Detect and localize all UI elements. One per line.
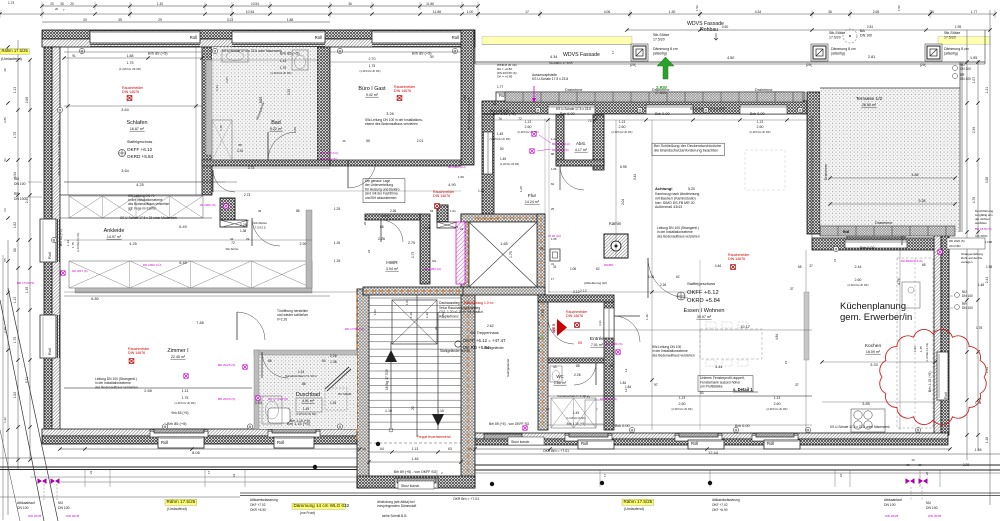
svg-text:BD 17/30 (S): BD 17/30 (S) (17, 281, 34, 285)
svg-text:FTS: FTS (382, 214, 390, 219)
svg-text:26.90 m²: 26.90 m² (862, 103, 877, 107)
svg-text:M: M (164, 425, 167, 429)
svg-text:1.10: 1.10 (437, 409, 444, 413)
svg-text:72: 72 (588, 119, 592, 123)
svg-text:DU 90x90: DU 90x90 (338, 392, 352, 396)
svg-text:(Umlaufend): (Umlaufend) (624, 507, 644, 511)
svg-text:(1.415 bis UK RK): (1.415 bis UK RK) (360, 69, 381, 73)
svg-text:DD 2260 (H): DD 2260 (H) (424, 267, 441, 271)
svg-text:16.09 m²: 16.09 m² (866, 350, 881, 354)
svg-text:Treppe feuerhemmend: Treppe feuerhemmend (417, 435, 451, 439)
svg-text:36: 36 (348, 2, 352, 6)
svg-text:17.5/20: 17.5/20 (655, 91, 666, 95)
svg-text:1.25: 1.25 (334, 207, 341, 211)
svg-text:20: 20 (3, 68, 7, 72)
svg-text:OKF +7.02: OKF +7.02 (712, 503, 728, 507)
svg-text:des Bodenaufbaus verziehen: des Bodenaufbaus verziehen (95, 385, 138, 389)
svg-text:NÜ: NÜ (14, 177, 19, 181)
svg-text:50: 50 (500, 147, 504, 151)
svg-text:Entrée: Entrée (590, 336, 604, 342)
svg-text:3.64: 3.64 (121, 169, 128, 173)
svg-text:1.06: 1.06 (648, 275, 654, 279)
svg-text:22.45 m²: 22.45 m² (171, 355, 186, 359)
svg-text:20: 20 (918, 463, 922, 467)
svg-text:25: 25 (540, 247, 544, 251)
svg-text:24: 24 (367, 249, 371, 253)
svg-text:1.75: 1.75 (369, 64, 376, 68)
svg-text:20: 20 (55, 7, 59, 11)
svg-text:1.78: 1.78 (976, 326, 982, 330)
svg-text:(20(: (20( (806, 63, 813, 67)
svg-text:01: 01 (537, 348, 541, 352)
svg-text:3.26: 3.26 (386, 112, 393, 116)
svg-text:Abst.: Abst. (576, 141, 586, 146)
svg-text:Brh 85 (+5): Brh 85 (+5) (412, 51, 432, 56)
svg-text:Staffelgeschoss: Staffelgeschoss (687, 281, 715, 286)
svg-text:1.06: 1.06 (551, 167, 557, 171)
svg-text:1.07: 1.07 (972, 77, 976, 84)
svg-text:M: M (835, 247, 838, 251)
svg-text:22: 22 (232, 473, 236, 477)
svg-text:DD 2000 (S): DD 2000 (S) (552, 148, 569, 152)
svg-text:4.06: 4.06 (604, 10, 611, 14)
svg-text:Kamin: Kamin (609, 221, 622, 226)
svg-text:2.60: 2.60 (619, 125, 626, 129)
svg-text:BD 2000 (LÜ): BD 2000 (LÜ) (320, 151, 338, 155)
svg-text:DD/BD: DD/BD (604, 263, 614, 267)
svg-text:(allseitig): (allseitig) (944, 52, 958, 56)
svg-text:4.34: 4.34 (550, 55, 557, 59)
svg-text:4.25: 4.25 (136, 183, 143, 187)
svg-text:DD 2000 (LÜ): DD 2000 (LÜ) (143, 263, 162, 267)
svg-text:83: 83 (700, 391, 704, 395)
svg-text:2.44: 2.44 (855, 265, 862, 269)
svg-text:Brh 89 (+5) - von OKFF SG: Brh 89 (+5) - von OKFF SG (394, 470, 437, 474)
svg-text:88: 88 (551, 152, 555, 156)
svg-text:WE 5: WE 5 (552, 324, 556, 333)
svg-text:M: M (735, 428, 738, 432)
svg-text:20: 20 (906, 463, 910, 467)
svg-text:16.87 m²: 16.87 m² (130, 127, 145, 131)
svg-text:1.21: 1.21 (985, 87, 989, 94)
svg-text:6.80: 6.80 (91, 297, 98, 301)
svg-text:Attikaentwässerung: Attikaentwässerung (712, 498, 740, 502)
svg-text:1.52: 1.52 (897, 5, 901, 11)
svg-text:2.26: 2.26 (240, 223, 247, 227)
svg-text:Brh 1.15 (+5): Brh 1.15 (+5) (490, 109, 509, 113)
svg-text:RD 2020 (S): RD 2020 (S) (949, 239, 965, 243)
svg-text:7.88: 7.88 (196, 321, 203, 325)
svg-text:1.45: 1.45 (573, 411, 579, 415)
svg-text:siehe Schnitt B-B: siehe Schnitt B-B (382, 514, 406, 518)
svg-text:Zimmer I: Zimmer I (167, 348, 188, 354)
svg-text:4.46: 4.46 (715, 264, 722, 268)
svg-text:2.60: 2.60 (757, 125, 764, 129)
svg-text:37: 37 (790, 287, 794, 291)
svg-text:80 2000 (LÜ): 80 2000 (LÜ) (448, 165, 466, 169)
svg-text:Dachausstieg +: Dachausstieg + (439, 301, 462, 305)
svg-text:1.24: 1.24 (298, 370, 304, 374)
svg-text:1.13: 1.13 (757, 120, 763, 124)
svg-text:Brh 85 (+5): Brh 85 (+5) (148, 51, 168, 56)
svg-text:26: 26 (363, 221, 367, 225)
svg-text:2.26: 2.26 (237, 149, 243, 153)
svg-text:(1.415 bis UK RK): (1.415 bis UK RK) (271, 71, 292, 75)
svg-text:2.60: 2.60 (774, 402, 781, 406)
svg-text:1.69: 1.69 (458, 175, 464, 179)
svg-text:1.65: 1.65 (500, 242, 507, 246)
svg-text:s. Detail 1: s. Detail 1 (733, 387, 753, 392)
svg-text:20: 20 (70, 2, 74, 6)
svg-text:OKR +6.90: OKR +6.90 (250, 508, 266, 512)
svg-text:BA: BA (860, 29, 865, 33)
svg-text:(1.115 bis UK RK): (1.115 bis UK RK) (296, 412, 317, 416)
svg-text:1.01: 1.01 (450, 209, 456, 213)
svg-text:1.48: 1.48 (975, 448, 982, 452)
svg-text:17: 17 (551, 277, 555, 281)
svg-text:M: M (249, 425, 252, 429)
svg-text:Brh 85 (+5): Brh 85 (+5) (167, 421, 187, 426)
svg-text:hier: SIMO DS-FB MR 20: hier: SIMO DS-FB MR 20 (655, 201, 695, 205)
svg-text:KS U-Schale 17.5 x 23.8 unter: KS U-Schale 17.5 x 23.8 unter Mauerwerk (222, 49, 282, 53)
svg-text:M: M (339, 49, 342, 53)
svg-text:36: 36 (258, 209, 262, 213)
svg-text:DN 100: DN 100 (884, 503, 896, 507)
svg-text:63: 63 (448, 447, 452, 451)
svg-text:(1.115 bis UK RK): (1.115 bis UK RK) (926, 343, 929, 362)
svg-text:Stb-Stütze: Stb-Stütze (225, 247, 239, 251)
svg-text:2.68: 2.68 (144, 389, 151, 393)
svg-text:10.17: 10.17 (740, 324, 751, 329)
svg-text:M: M (214, 49, 217, 53)
svg-text:Brh 85 (+5): Brh 85 (+5) (171, 411, 188, 415)
svg-text:M: M (639, 108, 642, 112)
svg-text:(nur Front): (nur Front) (300, 511, 315, 515)
svg-text:17.5/72.5: 17.5/72.5 (253, 226, 266, 230)
svg-text:DN 100: DN 100 (58, 506, 70, 510)
svg-text:31: 31 (553, 265, 557, 269)
svg-text:KS U-Schale 17.5 x 23.8: KS U-Schale 17.5 x 23.8 (467, 97, 471, 130)
svg-text:Brh 85 (+5): Brh 85 (+5) (280, 51, 300, 56)
svg-text:4.84: 4.84 (775, 334, 779, 340)
svg-text:(2.315 bis UK RK): (2.315 bis UK RK) (750, 130, 771, 134)
svg-text:1.75: 1.75 (182, 396, 189, 400)
svg-text:Rähm 17.5/25: Rähm 17.5/25 (167, 499, 196, 504)
svg-text:4.50: 4.50 (727, 56, 734, 60)
svg-text:WD 20/25: WD 20/25 (885, 514, 899, 518)
svg-text:1.45: 1.45 (303, 407, 310, 411)
svg-text:Roll: Roll (581, 441, 588, 446)
svg-text:(allseitig): (allseitig) (653, 52, 667, 56)
svg-text:6.49: 6.49 (179, 225, 186, 229)
svg-text:und BH abzustimmen: und BH abzustimmen (365, 196, 397, 200)
svg-text:DN 100: DN 100 (860, 34, 872, 38)
svg-text:Roll: Roll (161, 440, 168, 445)
svg-text:DIN 14676: DIN 14676 (128, 351, 145, 355)
svg-text:(Umlaufend): (Umlaufend) (167, 507, 187, 511)
svg-text:1.40: 1.40 (645, 314, 649, 320)
svg-text:1.75: 1.75 (280, 66, 287, 70)
svg-text:RR: RR (14, 192, 19, 196)
svg-text:91: 91 (72, 54, 76, 58)
svg-text:Brh 0.00: Brh 0.00 (615, 423, 631, 428)
svg-text:2.04: 2.04 (621, 199, 625, 205)
svg-text:Bei Schließung der Deckendurch: Bei Schließung der Deckendurchbrüche (654, 144, 721, 148)
svg-text:2.62: 2.62 (487, 324, 494, 328)
svg-text:4.76: 4.76 (972, 197, 976, 204)
svg-text:OKF +6.90: OKF +6.90 (712, 508, 728, 512)
svg-text:1.75: 1.75 (13, 337, 17, 344)
svg-text:1.22: 1.22 (3, 417, 7, 423)
svg-text:11.86: 11.86 (426, 2, 434, 6)
svg-text:24: 24 (537, 321, 541, 325)
svg-text:3.07: 3.07 (259, 97, 263, 104)
svg-text:17: 17 (611, 50, 615, 54)
svg-text:72: 72 (518, 117, 522, 121)
svg-text:1.48: 1.48 (985, 437, 989, 444)
svg-text:3.64: 3.64 (121, 108, 128, 112)
svg-text:DN 100: DN 100 (962, 294, 973, 298)
svg-text:KS U-Schale 17.5 x 23.8: KS U-Schale 17.5 x 23.8 (556, 107, 591, 111)
svg-text:Brh 0.00: Brh 0.00 (750, 111, 766, 116)
svg-text:Roll: Roll (843, 230, 849, 234)
svg-text:(1.115 bis UK RK): (1.115 bis UK RK) (566, 417, 585, 420)
svg-text:1.13: 1.13 (525, 120, 531, 124)
svg-text:14.24 m²: 14.24 m² (525, 200, 540, 204)
svg-text:M: M (53, 238, 56, 242)
svg-text:5.20: 5.20 (688, 187, 695, 191)
svg-text:3.94 m²: 3.94 m² (386, 267, 399, 271)
svg-text:88: 88 (576, 364, 580, 368)
svg-text:Attikaentwässerung: Attikaentwässerung (250, 498, 278, 502)
svg-text:OKRD +5.84: OKRD +5.84 (127, 154, 154, 159)
svg-text:50: 50 (430, 55, 434, 59)
svg-text:1.73: 1.73 (8, 1, 14, 5)
svg-text:1.45: 1.45 (497, 132, 504, 136)
svg-text:M: M (339, 425, 342, 429)
svg-text:Attikaablauf: Attikaablauf (884, 498, 902, 502)
svg-text:88: 88 (238, 143, 242, 147)
svg-text:Drainrinne: Drainrinne (755, 88, 773, 92)
svg-text:WDVS Fassade: WDVS Fassade (563, 52, 600, 58)
svg-text:D5: D5 (578, 341, 582, 345)
svg-text:Brh 1.15 (+5): Brh 1.15 (+5) (928, 371, 932, 392)
svg-text:DD-BD40/113 (S): DD-BD40/113 (S) (901, 259, 923, 263)
svg-text:2.70: 2.70 (369, 57, 376, 61)
svg-text:BD 2000 (S): BD 2000 (S) (606, 342, 623, 346)
svg-text:gem. Erwerber/in: gem. Erwerber/in (840, 312, 912, 323)
svg-text:36: 36 (828, 10, 832, 14)
svg-text:2.60: 2.60 (525, 125, 532, 129)
svg-text:4.91 m²: 4.91 m² (302, 399, 315, 403)
svg-text:Vorsatzschale h=1.19 m: Vorsatzschale h=1.19 m (285, 374, 318, 378)
svg-text:(1.415 bis UK RK): (1.415 bis UK RK) (175, 401, 196, 405)
svg-text:WD 20/45: WD 20/45 (66, 514, 80, 518)
svg-text:97: 97 (654, 383, 658, 387)
svg-text:OKRD +5.84: OKRD +5.84 (687, 298, 721, 304)
svg-text:DN 100: DN 100 (14, 197, 26, 201)
svg-text:6.49: 6.49 (179, 261, 186, 265)
svg-text:9.42 m²: 9.42 m² (366, 93, 379, 97)
svg-text:2.40: 2.40 (25, 197, 29, 204)
svg-text:1.13: 1.13 (619, 120, 625, 124)
svg-text:ausfüllen: ausfüllen (975, 221, 987, 225)
svg-text:3.42: 3.42 (633, 174, 637, 180)
svg-text:DD 2000 (S): DD 2000 (S) (320, 157, 337, 161)
svg-text:(Abkofferung GK): (Abkofferung GK) (584, 281, 607, 285)
svg-text:1.30: 1.30 (669, 10, 676, 14)
svg-text:M: M (454, 49, 457, 53)
svg-text:39.97 m²: 39.97 m² (697, 315, 712, 319)
svg-text:Essen I Wohnen: Essen I Wohnen (684, 308, 725, 314)
svg-text:1.13: 1.13 (13, 87, 17, 94)
svg-text:des Bodenaufbaus verziehen: des Bodenaufbaus verziehen (652, 353, 695, 357)
svg-text:Achtung!: Achtung! (655, 186, 673, 191)
svg-text:1.20: 1.20 (425, 312, 429, 318)
svg-text:50: 50 (322, 359, 326, 363)
svg-text:Brandschutzwand: Brandschutzwand (477, 217, 500, 221)
svg-text:20: 20 (50, 2, 54, 6)
svg-text:1.25: 1.25 (330, 401, 336, 405)
svg-text:Stb-Stütze: Stb-Stütze (944, 31, 960, 35)
svg-text:1.93: 1.93 (255, 401, 262, 405)
svg-text:OK = +0.85: OK = +0.85 (497, 75, 513, 79)
svg-text:1.88: 1.88 (127, 54, 134, 58)
svg-text:3.98: 3.98 (985, 177, 989, 184)
svg-text:10: 10 (911, 458, 915, 462)
svg-text:Attikaablauf: Attikaablauf (17, 501, 35, 505)
svg-text:KS U-Schale 17.5 x 23.8: KS U-Schale 17.5 x 23.8 (532, 77, 568, 81)
svg-text:ggf. Fuge im Estrich: ggf. Fuge im Estrich (128, 206, 157, 210)
svg-text:DIN 14676: DIN 14676 (433, 194, 450, 198)
svg-text:DD 17/30 (LÜ): DD 17/30 (LÜ) (345, 327, 364, 331)
svg-text:Duschbad: Duschbad (296, 392, 320, 398)
svg-text:20: 20 (434, 326, 438, 330)
svg-text:1.24: 1.24 (478, 189, 484, 193)
svg-text:M: M (917, 428, 920, 432)
svg-text:M: M (631, 428, 634, 432)
svg-text:NÜ: NÜ (926, 501, 931, 505)
svg-text:1.01: 1.01 (405, 299, 409, 305)
svg-text:Kaminzug nach Abstimmung: Kaminzug nach Abstimmung (655, 192, 699, 196)
svg-text:88: 88 (380, 225, 384, 229)
svg-text:BD 1878 (S): BD 1878 (S) (975, 227, 992, 231)
svg-text:Brh 0.00: Brh 0.00 (655, 111, 671, 116)
svg-text:2.44: 2.44 (985, 277, 989, 284)
svg-text:OKR Brh = +7.01: OKR Brh = +7.01 (543, 449, 569, 453)
svg-text:1.26: 1.26 (334, 241, 341, 245)
svg-text:FTS: FTS (541, 309, 545, 316)
svg-text:Roll: Roll (277, 440, 284, 445)
svg-text:Roll: Roll (944, 392, 948, 399)
svg-text:20: 20 (83, 18, 87, 22)
svg-text:OKR Brh = +7.01: OKR Brh = +7.01 (453, 497, 479, 501)
svg-text:1.53: 1.53 (441, 312, 445, 318)
svg-text:62: 62 (551, 182, 555, 186)
svg-text:76: 76 (498, 117, 502, 121)
svg-text:UK=OKD: UK=OKD (949, 244, 961, 248)
svg-text:20: 20 (362, 447, 366, 451)
svg-text:1.13: 1.13 (679, 396, 685, 400)
svg-text:M: M (59, 108, 62, 112)
svg-text:11.86: 11.86 (433, 10, 441, 14)
svg-text:1.24: 1.24 (551, 137, 557, 141)
svg-text:1.20: 1.20 (519, 186, 523, 192)
svg-text:Außenmaß 43/43: Außenmaß 43/43 (655, 205, 682, 209)
svg-text:4.76: 4.76 (897, 278, 901, 285)
svg-text:24: 24 (468, 447, 472, 451)
svg-text:Drainrinne: Drainrinne (875, 221, 893, 225)
svg-text:(2.315 bis UK RK): (2.315 bis UK RK) (612, 130, 633, 134)
svg-text:64: 64 (380, 447, 384, 451)
svg-text:1.38: 1.38 (330, 360, 337, 364)
svg-text:88: 88 (296, 209, 300, 213)
svg-text:M: M (705, 108, 708, 112)
svg-text:NÜ: NÜ (58, 501, 63, 505)
svg-text:des Bodenaufbaus verziehen: des Bodenaufbaus verziehen (657, 234, 700, 238)
svg-text:4.90: 4.90 (448, 183, 455, 187)
svg-text:1.10: 1.10 (385, 409, 392, 413)
svg-text:3.85: 3.85 (862, 402, 869, 406)
svg-text:36: 36 (342, 139, 346, 143)
svg-text:KS U-Schale 17.5 x 23 Bürier M: KS U-Schale 17.5 x 23 Bürier Mauerwerk (57, 120, 61, 175)
svg-text:22: 22 (455, 225, 459, 229)
svg-text:6.95: 6.95 (620, 165, 627, 169)
svg-text:Roll: Roll (315, 35, 322, 40)
svg-text:die Brandschutzanforderung bea: die Brandschutzanforderung beachten (654, 149, 718, 153)
svg-text:9.22 m²: 9.22 m² (270, 127, 283, 131)
svg-text:15: 15 (784, 360, 788, 364)
svg-text:1.77: 1.77 (971, 10, 978, 14)
svg-text:88: 88 (302, 382, 306, 386)
svg-text:1.13: 1.13 (66, 240, 70, 246)
svg-text:M: M (799, 108, 802, 112)
svg-text:3.23: 3.23 (227, 18, 234, 22)
svg-text:Stahlgeländer Brh 90: Stahlgeländer Brh 90 (440, 349, 470, 353)
svg-text:17.5/20: 17.5/20 (829, 36, 841, 40)
svg-text:DIN 14676: DIN 14676 (566, 314, 583, 318)
svg-text:88: 88 (268, 359, 272, 363)
svg-text:64: 64 (430, 209, 434, 213)
svg-text:15: 15 (833, 258, 837, 262)
svg-text:1.95: 1.95 (970, 56, 977, 60)
svg-text:88: 88 (13, 248, 17, 252)
svg-text:DIN 14676: DIN 14676 (394, 89, 411, 93)
svg-text:64: 64 (3, 208, 7, 212)
svg-text:(allseitig): (allseitig) (831, 52, 845, 56)
svg-text:Büro I Gast: Büro I Gast (358, 86, 386, 92)
svg-text:Bad: Bad (271, 120, 281, 126)
svg-text:Ankleide: Ankleide (104, 228, 125, 234)
svg-text:Roll: Roll (767, 441, 774, 446)
svg-text:DN 100: DN 100 (14, 182, 26, 186)
svg-text:22: 22 (89, 470, 93, 474)
svg-text:M: M (537, 108, 540, 112)
svg-text:1.28: 1.28 (424, 226, 431, 230)
svg-text:10.54: 10.54 (251, 2, 259, 6)
svg-text:2.01: 2.01 (417, 139, 424, 143)
svg-text:Roll: Roll (691, 441, 698, 446)
svg-text:(2.315 bis UK RK): (2.315 bis UK RK) (672, 407, 693, 411)
svg-text:ebene des Bodenaufbaus verzieh: ebene des Bodenaufbaus verziehen (365, 122, 418, 126)
svg-text:1.75: 1.75 (13, 132, 17, 139)
svg-text:65: 65 (798, 265, 802, 269)
svg-text:Staffelgeschoss: Staffelgeschoss (127, 140, 153, 144)
svg-text:Terrasse 1/2: Terrasse 1/2 (856, 96, 883, 102)
svg-text:Brh 1.15 (+5): Brh 1.15 (+5) (290, 419, 310, 423)
svg-text:37: 37 (795, 383, 799, 387)
svg-text:Sb-Rähm 17.5/55: Sb-Rähm 17.5/55 (549, 61, 573, 65)
